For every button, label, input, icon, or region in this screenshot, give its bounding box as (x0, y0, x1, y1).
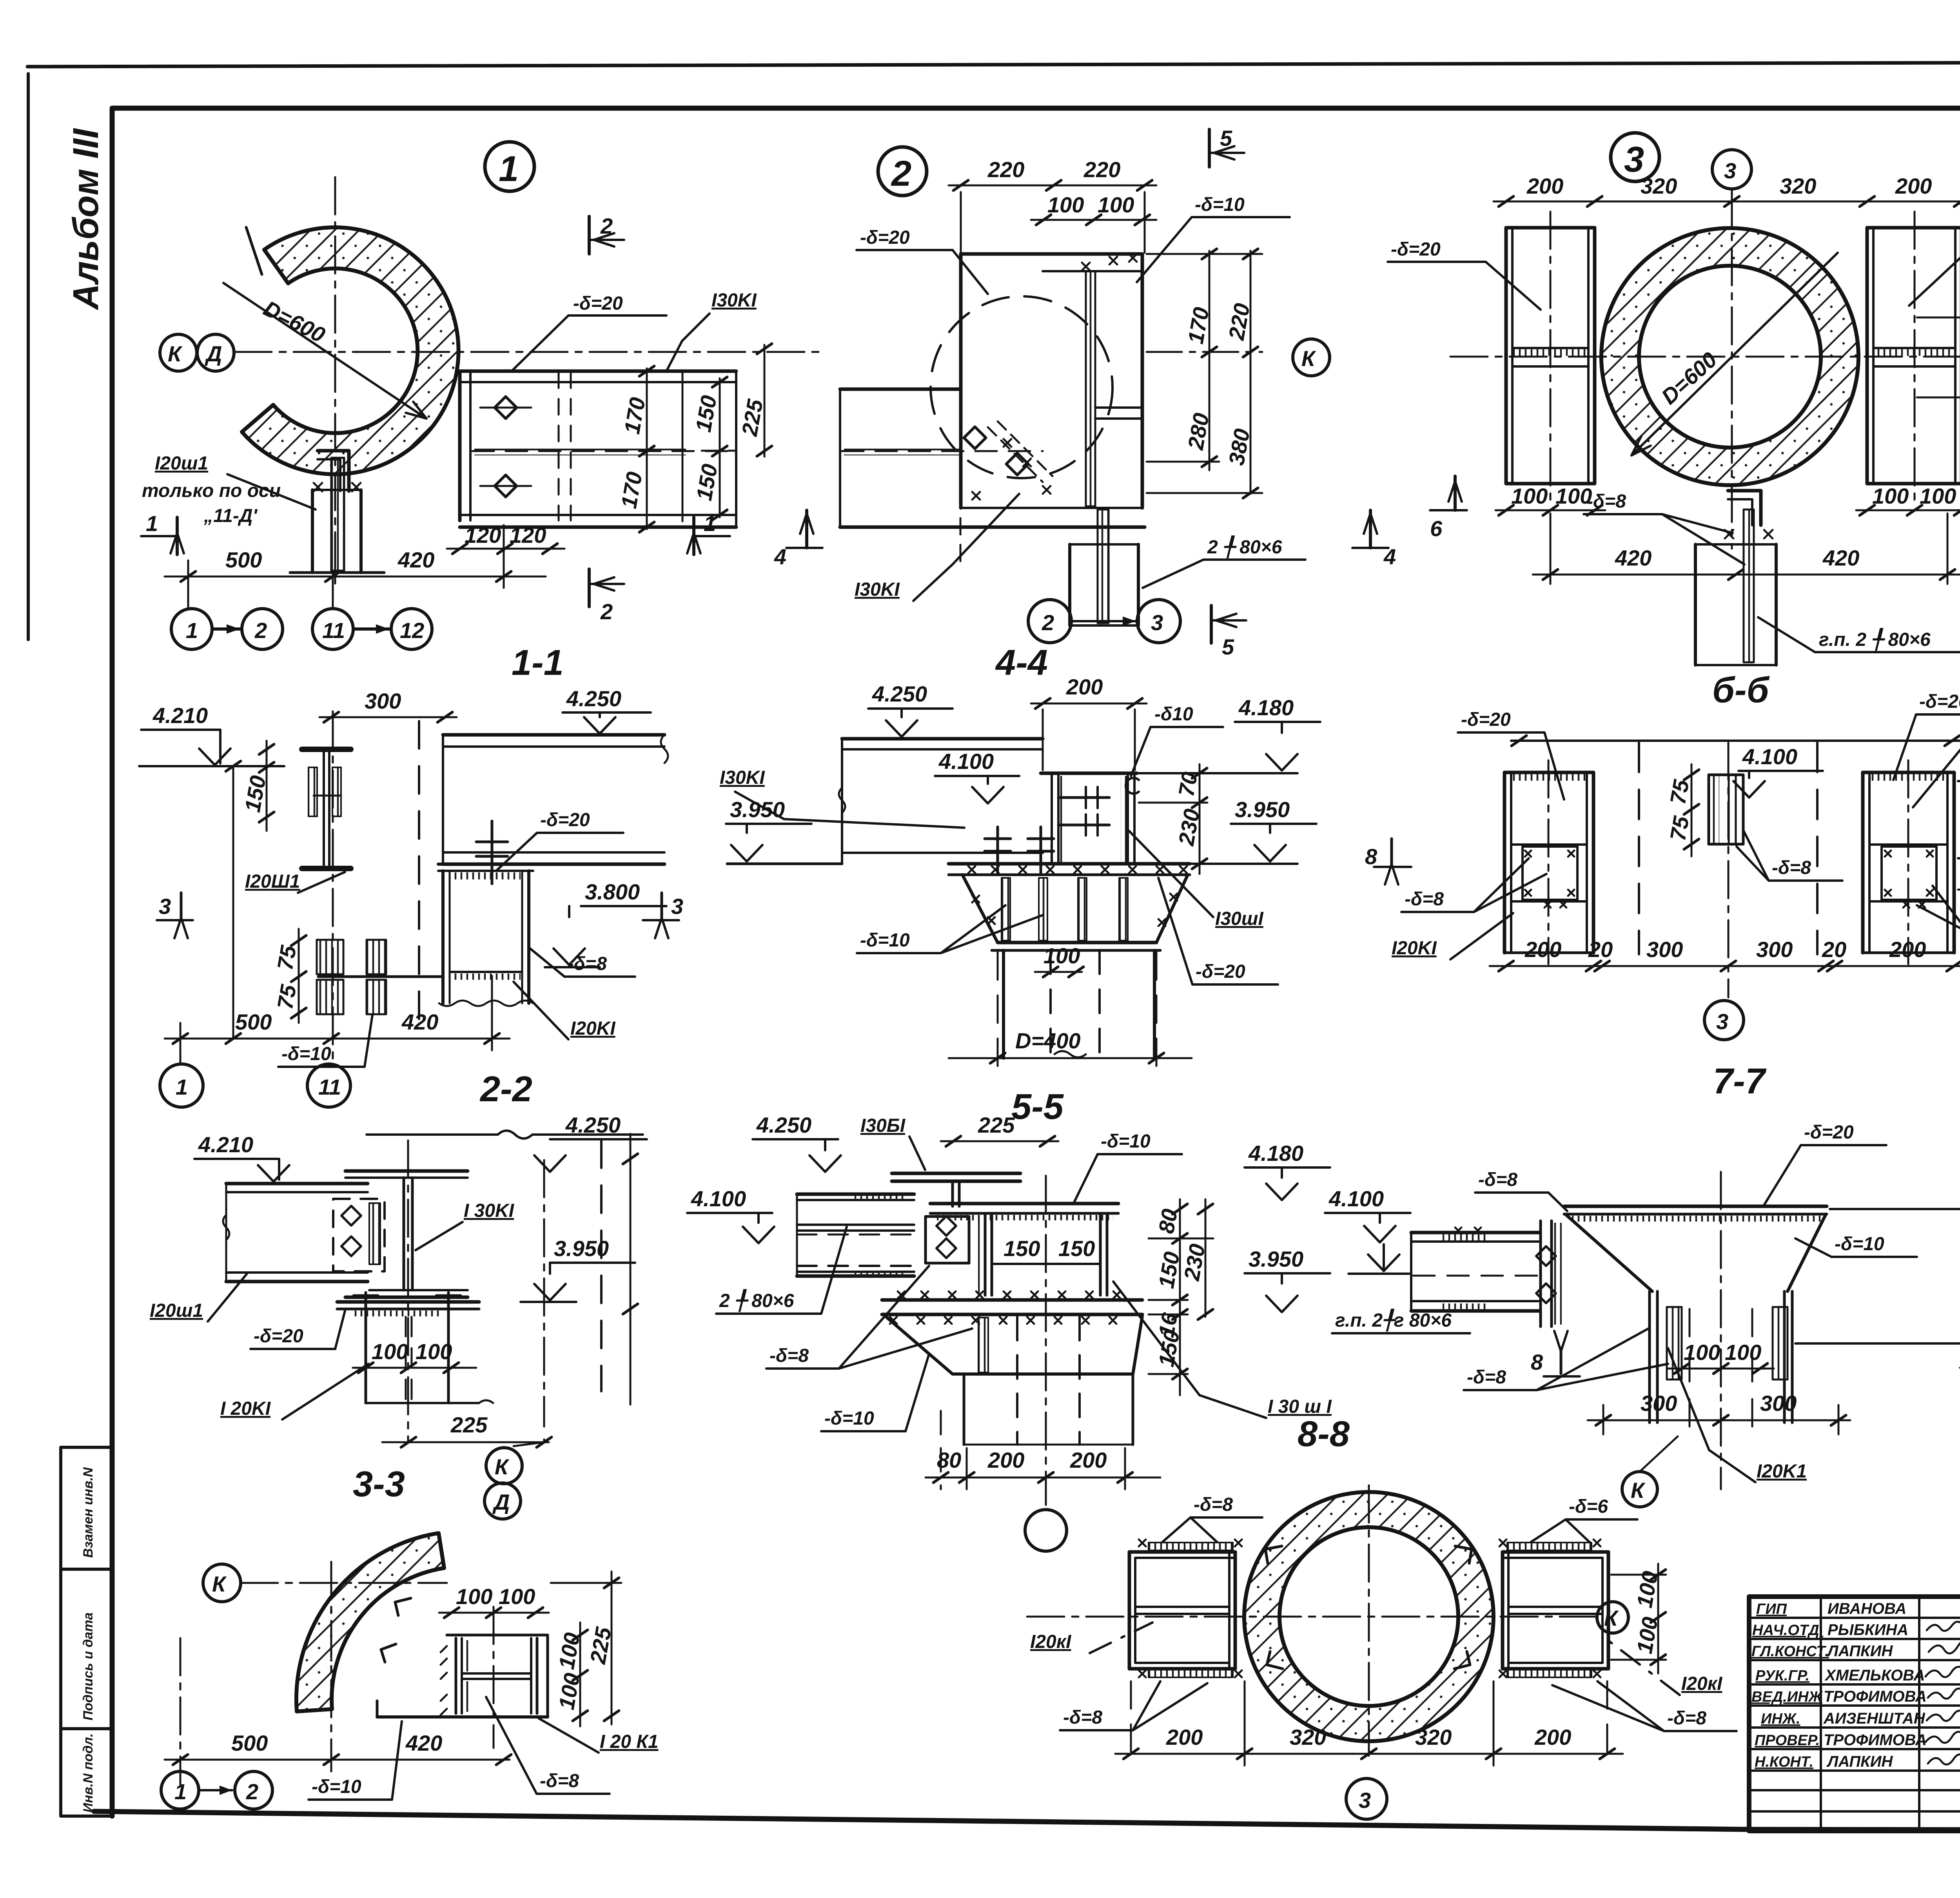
svg-text:-δ=20: -δ=20 (1919, 691, 1960, 712)
level 4.100 left (1368, 1254, 1399, 1271)
axis circle K (160, 334, 197, 371)
svg-text:-δ=8: -δ=8 (1772, 857, 1811, 878)
grid circle 3 top (1712, 150, 1751, 189)
svg-text:I30KI: I30KI (720, 767, 765, 788)
svg-text:5: 5 (1222, 634, 1234, 659)
svg-text:-δ=10: -δ=10 (1101, 1131, 1151, 1152)
right vertical dims 275 100 100 275 (1917, 219, 1960, 492)
svg-text:3: 3 (1151, 610, 1163, 635)
svg-text:-δ=10: -δ=10 (312, 1777, 361, 1797)
section mark 4 right (1352, 547, 1388, 549)
bottom dim 200 320 320 200 (1115, 1753, 1623, 1755)
sidebar rotated labels (81, 1467, 96, 1813)
svg-text:4.250: 4.250 (756, 1113, 811, 1137)
svg-text:2 ╀ 80×6: 2 ╀ 80×6 (1207, 535, 1282, 558)
svg-text:ИНЖ.: ИНЖ. (1761, 1711, 1800, 1727)
VIEW1 (141, 142, 821, 649)
beam I30K1 (839, 739, 1043, 864)
section mark 2 bottom (588, 569, 591, 607)
svg-text:ГЛ.КОНСТ.: ГЛ.КОНСТ. (1751, 1643, 1829, 1660)
SEC66 (1392, 691, 1960, 1040)
axis circles K D (543, 1439, 545, 1442)
VIEW3 (1388, 129, 1960, 676)
base plate d=20 (337, 1302, 479, 1316)
section mark 6 left (1430, 509, 1467, 511)
svg-text:-δ=8: -δ=8 (769, 1345, 809, 1366)
top plate d=10 (930, 1204, 1118, 1220)
svg-text:2-2: 2-2 (479, 1069, 532, 1109)
svg-text:6: 6 (1430, 516, 1443, 541)
svg-text:100: 100 (1098, 192, 1134, 217)
svg-text:420: 420 (397, 547, 434, 572)
dim 100 100 (1031, 219, 1156, 221)
grid circles 1 2 11 12 (171, 609, 432, 649)
section mark 1 left (141, 535, 177, 537)
svg-text:-δ=8: -δ=8 (1587, 491, 1626, 512)
svg-text:120: 120 (510, 523, 546, 547)
svg-text:-δ=20: -δ=20 (540, 810, 590, 830)
svg-text:ХМЕЛЬКОВА: ХМЕЛЬКОВА (1824, 1667, 1925, 1684)
svg-text:-δ=8: -δ=8 (1063, 1707, 1102, 1728)
dims 70 230 right (1199, 764, 1201, 874)
grid circles 1 11 (160, 1064, 203, 1107)
svg-text:200: 200 (1895, 174, 1932, 198)
svg-text:2: 2 (1042, 610, 1054, 635)
svg-text:1: 1 (499, 149, 519, 189)
bottom dims 100 100 (1495, 509, 1605, 511)
svg-text:4.100: 4.100 (1328, 1186, 1384, 1211)
svg-text:-δ=10: -δ=10 (1195, 194, 1245, 215)
left beam pair plan (1506, 212, 1595, 506)
svg-text:100: 100 (372, 1339, 408, 1364)
dim 100 (1035, 971, 1082, 973)
quarter concrete ring (296, 1533, 444, 1711)
svg-text:2: 2 (254, 618, 267, 643)
concrete ring column D=600 (1601, 228, 1858, 485)
svg-text:150: 150 (1058, 1236, 1095, 1261)
left boundary dim line (232, 766, 234, 1039)
svg-text:-δ=8: -δ=8 (1478, 1169, 1517, 1190)
svg-text:150: 150 (1004, 1236, 1040, 1261)
svg-text:8-8: 8-8 (1298, 1414, 1350, 1454)
dim line 500 420 (165, 576, 546, 578)
dim 500 420 (165, 1038, 510, 1040)
svg-text:-δ=6: -δ=6 (1569, 1496, 1608, 1517)
svg-text:АИЗЕНШТАН: АИЗЕНШТАН (1823, 1710, 1926, 1727)
grid circle 3 (1704, 1001, 1744, 1040)
svg-text:100: 100 (1725, 1340, 1761, 1365)
svg-text:К: К (495, 1454, 510, 1479)
svg-text:500: 500 (231, 1731, 268, 1755)
bottom dim 200 20 300 300 20 200 (1490, 965, 1960, 967)
svg-text:Альбом III: Альбом III (66, 128, 106, 310)
svg-text:100: 100 (456, 1584, 492, 1609)
gusset vertical plate assembly (961, 254, 1142, 508)
svg-text:3.950: 3.950 (554, 1236, 609, 1261)
svg-text:3: 3 (159, 894, 171, 919)
svg-text:300: 300 (1760, 1391, 1797, 1416)
svg-text:20: 20 (1822, 937, 1846, 962)
right beam box (1863, 760, 1954, 964)
outer left border line (27, 74, 30, 640)
svg-text:-δ=10: -δ=10 (860, 930, 910, 951)
end plate with bolts (1536, 1221, 1562, 1327)
node label circle 1 (485, 142, 534, 191)
svg-text:7-7: 7-7 (1713, 1061, 1767, 1101)
wide plate under beam (949, 864, 1190, 875)
section mark 2 top (588, 216, 591, 254)
svg-text:2: 2 (246, 1779, 258, 1804)
hidden column face dashed (418, 721, 420, 1035)
svg-text:-δ=8: -δ=8 (1667, 1708, 1706, 1729)
svg-text:4.210: 4.210 (198, 1132, 253, 1157)
svg-text:200: 200 (1534, 1725, 1571, 1749)
svg-text:4: 4 (774, 544, 786, 569)
svg-text:г.п. 2 ╀ 80×6: г.п. 2 ╀ 80×6 (1819, 628, 1931, 651)
svg-text:Д: Д (205, 341, 222, 366)
grid circles 1 2 (161, 1771, 199, 1809)
svg-text:300: 300 (1646, 937, 1683, 962)
embedded angle marks (1265, 1546, 1472, 1669)
svg-text:только по оси: только по оси (142, 480, 281, 501)
svg-text:70: 70 (1174, 770, 1202, 798)
svg-text:г.п. 2╀г 80×6: г.п. 2╀г 80×6 (1335, 1309, 1452, 1332)
svg-text:ТРОФИМОВА: ТРОФИМОВА (1824, 1688, 1927, 1705)
grid circle 3 (1346, 1778, 1387, 1819)
section mark 1 right (694, 535, 730, 537)
svg-text:Н.КОНТ.: Н.КОНТ. (1755, 1754, 1813, 1770)
svg-text:4.250: 4.250 (566, 686, 621, 711)
left beam box (1504, 760, 1593, 964)
svg-text:-δ=8: -δ=8 (540, 1771, 579, 1791)
svg-text:-δ=10: -δ=10 (1835, 1234, 1884, 1254)
dim 100 100 (1668, 1368, 1774, 1370)
svg-text:5: 5 (1220, 126, 1232, 150)
SEC77 (1348, 1122, 1960, 1507)
svg-text:I 20 К1: I 20 К1 (600, 1731, 659, 1752)
left beam pair (1129, 1539, 1242, 1677)
dim 100 100 above (439, 1612, 549, 1614)
svg-text:200: 200 (1526, 174, 1563, 198)
svg-text:220: 220 (1083, 157, 1120, 182)
svg-text:200: 200 (1066, 674, 1103, 699)
svg-text:320: 320 (1290, 1725, 1326, 1749)
svg-text:-δ=20: -δ=20 (254, 1326, 303, 1347)
signatures (1926, 1622, 1960, 1764)
SEC33 (150, 1113, 647, 1519)
svg-text:-δ=8: -δ=8 (1467, 1367, 1506, 1388)
svg-text:-δ=8: -δ=8 (568, 954, 607, 974)
dims 75 75 (298, 929, 300, 1023)
svg-text:120: 120 (465, 523, 501, 547)
svg-text:К: К (1631, 1478, 1646, 1503)
outer top border line (27, 62, 1960, 67)
dim 300 (319, 716, 457, 718)
svg-text:420: 420 (405, 1731, 442, 1755)
dims 75 75 middle (1691, 764, 1693, 856)
svg-text:3: 3 (1724, 158, 1736, 183)
svg-text:500: 500 (225, 547, 262, 572)
svg-text:I20кI: I20кI (1030, 1632, 1072, 1652)
axis circle Д (197, 334, 234, 371)
svg-text:11: 11 (318, 1075, 341, 1099)
svg-text:420: 420 (401, 1010, 438, 1034)
signature table names (1823, 1600, 1927, 1770)
svg-text:2: 2 (600, 214, 613, 238)
svg-text:I 30KI: I 30KI (464, 1200, 515, 1221)
svg-text:1: 1 (704, 511, 716, 536)
svg-text:I20KI: I20KI (570, 1018, 616, 1039)
svg-text:К: К (1604, 1606, 1619, 1630)
bottom plate with welds (882, 1291, 1142, 1324)
TITLEBLOCK (1749, 1447, 1960, 1831)
D=600 diagonal with arrow (223, 283, 426, 419)
svg-text:100: 100 (1511, 484, 1548, 508)
svg-text:225: 225 (450, 1412, 488, 1437)
right dims 100 100 225 (579, 1622, 581, 1726)
top dim 200 320 320 200 (1494, 201, 1960, 203)
svg-text:500: 500 (235, 1010, 272, 1034)
svg-text:3: 3 (1359, 1788, 1371, 1813)
axis circle K (203, 1564, 241, 1602)
svg-text:„11-Д': „11-Д' (203, 506, 258, 526)
T beam I30B1 (892, 1173, 1020, 1206)
support base (377, 1635, 548, 1717)
svg-text:I30БI: I30БI (860, 1115, 906, 1136)
column head I30sh1 (1041, 773, 1139, 864)
svg-text:100: 100 (1920, 484, 1956, 508)
section mark 5 bottom (1210, 605, 1213, 643)
dim 150 left (266, 741, 268, 831)
BOTL (161, 1533, 659, 1809)
svg-text:I 20KI: I 20KI (220, 1398, 271, 1419)
column box (978, 1213, 1107, 1295)
svg-text:1: 1 (176, 1075, 188, 1099)
svg-text:-δ=20: -δ=20 (1196, 961, 1245, 982)
dim 120 120 below beam (447, 548, 564, 550)
svg-text:Д: Д (492, 1490, 510, 1514)
svg-text:-δ=10: -δ=10 (281, 1044, 331, 1064)
svg-text:-δ=10: -δ=10 (824, 1408, 874, 1429)
trapezoid gusset (962, 875, 1188, 950)
svg-text:320: 320 (1641, 174, 1677, 198)
node label circle 3 (1611, 133, 1659, 181)
svg-text:100: 100 (1047, 192, 1084, 217)
svg-text:-δ=20: -δ=20 (1461, 709, 1511, 730)
bolt diamonds (495, 397, 517, 497)
vertical centerline (334, 177, 336, 588)
svg-text:-δ10: -δ10 (1154, 704, 1193, 725)
left beam elevation (1411, 1227, 1539, 1311)
beam from left (elevation) (840, 389, 1145, 564)
node label circle 2 (878, 147, 927, 196)
top boundary line (1511, 740, 1960, 742)
svg-text:4.100: 4.100 (1742, 744, 1797, 769)
svg-text:I 30 ш I: I 30 ш I (1268, 1396, 1332, 1417)
svg-text:Подпись и дата: Подпись и дата (81, 1612, 96, 1720)
svg-text:НАЧ.ОТД.: НАЧ.ОТД. (1752, 1622, 1823, 1639)
grid axis 11 dash-dot (332, 711, 334, 1066)
vertical dims 150 150 225 right of beam (647, 345, 764, 529)
svg-text:1-1: 1-1 (512, 643, 564, 683)
column below ring (290, 451, 384, 573)
svg-text:ТРОФИМОВА: ТРОФИМОВА (1824, 1731, 1927, 1749)
svg-text:-δ=8: -δ=8 (1194, 1494, 1233, 1515)
BOTC (1027, 1485, 1737, 1819)
svg-text:I20KI: I20KI (1392, 938, 1437, 959)
middle dashed column faces (1638, 743, 1640, 954)
dim 300 300 (1588, 1419, 1850, 1421)
svg-text:75: 75 (272, 983, 301, 1011)
dim 200 top (1031, 703, 1147, 705)
right dim 100 100 (1657, 1564, 1659, 1673)
column below (1004, 950, 1154, 1058)
dim 420 420 (1533, 574, 1960, 576)
svg-text:РЫБКИНА: РЫБКИНА (1828, 1621, 1908, 1639)
left beam 2L80x6 elevation (797, 1194, 914, 1276)
bracket plate with bolts (926, 1216, 969, 1263)
svg-text:Инв.N подл.: Инв.N подл. (81, 1733, 96, 1813)
svg-text:3.800: 3.800 (585, 879, 640, 904)
axis circle K (1622, 1472, 1657, 1507)
D=600 diagonal (1632, 253, 1838, 455)
svg-text:-δ=20: -δ=20 (1804, 1122, 1854, 1143)
SEC22 (139, 686, 683, 1107)
dim 225 top (941, 1140, 1058, 1142)
svg-text:200: 200 (1070, 1448, 1107, 1472)
I20sh1 beam section (302, 749, 351, 868)
svg-text:75: 75 (1665, 814, 1694, 843)
column under beam (438, 864, 533, 1006)
svg-text:8: 8 (1365, 844, 1377, 869)
svg-text:75: 75 (272, 943, 301, 972)
svg-text:I30шI: I30шI (1215, 908, 1264, 929)
svg-text:420: 420 (1822, 546, 1859, 570)
svg-text:б-б: б-б (1712, 670, 1770, 710)
svg-text:100: 100 (1684, 1340, 1720, 1365)
svg-text:3.950: 3.950 (1249, 1247, 1303, 1271)
svg-text:100: 100 (499, 1584, 535, 1609)
svg-text:1: 1 (186, 618, 198, 643)
svg-text:I30KI: I30KI (855, 579, 900, 600)
svg-text:3: 3 (1716, 1009, 1728, 1034)
beam plan I30K1 (460, 371, 736, 527)
embedded angle marks (381, 1598, 411, 1662)
anchor bolts (354, 1293, 461, 1403)
dim 225 (382, 1441, 549, 1443)
main title block frame (1749, 1597, 1960, 1831)
concrete ring column (1244, 1492, 1494, 1741)
stiffener plates pair (317, 940, 443, 1014)
column below with anchor (1695, 491, 1776, 665)
svg-text:100: 100 (1872, 484, 1909, 508)
dim 100 100 (353, 1367, 476, 1369)
svg-text:D=400: D=400 (1015, 1028, 1081, 1053)
svg-text:3-3: 3-3 (353, 1464, 405, 1504)
svg-text:-δ=8: -δ=8 (1405, 889, 1444, 910)
column below (367, 1317, 493, 1403)
svg-text:2: 2 (891, 154, 911, 194)
top plate of column assembly (1564, 1206, 1827, 1222)
svg-text:4.210: 4.210 (152, 703, 208, 728)
svg-text:20: 20 (1588, 937, 1613, 962)
svg-text:3: 3 (671, 894, 683, 919)
svg-text:К: К (1301, 346, 1316, 371)
svg-text:320: 320 (1780, 174, 1816, 198)
VIEW2 (774, 126, 1396, 659)
svg-text:5-5: 5-5 (1011, 1087, 1064, 1127)
svg-text:1: 1 (146, 511, 158, 536)
svg-text:200: 200 (1524, 937, 1561, 962)
svg-text:4-4: 4-4 (995, 643, 1048, 683)
svg-text:75: 75 (1665, 778, 1694, 806)
centerlines (1450, 356, 1960, 358)
ring cut tick (246, 227, 262, 274)
svg-text:ЛАПКИН: ЛАПКИН (1826, 1753, 1893, 1770)
right beam pair plan (1867, 212, 1960, 506)
small plate middle (1709, 775, 1743, 844)
svg-text:I20K1: I20K1 (1757, 1461, 1807, 1482)
left sidebar stamp boxes (61, 1447, 113, 1816)
svg-text:225: 225 (978, 1113, 1015, 1137)
svg-text:80: 80 (1154, 1207, 1182, 1235)
svg-text:220: 220 (987, 157, 1024, 182)
svg-text:РУК.ГР.: РУК.ГР. (1755, 1668, 1809, 1684)
svg-text:-δ=20: -δ=20 (573, 293, 623, 314)
bolt cross at cap (491, 821, 494, 884)
hidden column circle (dashed) (931, 296, 1112, 478)
axis verticals (407, 1140, 409, 1442)
section mark 5 top (1208, 129, 1211, 167)
axis circle K (1597, 1602, 1628, 1633)
crosshair centerlines (1027, 1616, 1595, 1618)
svg-text:1: 1 (174, 1779, 187, 1804)
svg-text:ИВАНОВА: ИВАНОВА (1828, 1600, 1906, 1617)
signature table rows (1749, 1597, 1960, 1831)
svg-text:К: К (168, 341, 183, 366)
dim 220 220 (949, 185, 1156, 187)
svg-text:I30KI: I30KI (711, 290, 757, 311)
svg-text:-δ=20: -δ=20 (1391, 239, 1441, 260)
dashed end plate with bolts (333, 1199, 385, 1271)
trapezoid sides (1565, 1172, 1826, 1489)
svg-text:I20кI: I20кI (1681, 1673, 1723, 1694)
svg-text:К: К (212, 1572, 227, 1596)
horizontal centerline K axis (234, 351, 821, 353)
svg-text:Взамен инв.N: Взамен инв.N (81, 1467, 96, 1558)
concrete column ring (C-shaped, D=600) (242, 227, 459, 474)
right dims 170 280 / 220 380 (1147, 251, 1262, 494)
svg-text:4.250: 4.250 (872, 682, 927, 706)
svg-text:3.950: 3.950 (1235, 797, 1290, 822)
section mark 4 left (786, 547, 822, 549)
anchor bolts above plate (985, 827, 1054, 875)
weld x marks (972, 254, 1137, 500)
svg-text:4.100: 4.100 (691, 1186, 746, 1211)
svg-text:ЛАПКИН: ЛАПКИН (1826, 1642, 1893, 1660)
column I30K1 vertical (345, 1171, 468, 1297)
svg-text:ВЕД.ИНЖ: ВЕД.ИНЖ (1751, 1689, 1823, 1705)
right beam pair (1499, 1539, 1608, 1677)
beam I20sh1 from left (223, 1184, 368, 1282)
svg-text:-δ=20: -δ=20 (860, 227, 910, 248)
svg-text:200: 200 (987, 1448, 1024, 1472)
svg-text:I20ш1: I20ш1 (150, 1300, 203, 1321)
svg-text:100: 100 (416, 1339, 452, 1364)
bolt diamonds (964, 427, 1028, 475)
svg-text:100: 100 (1044, 943, 1080, 968)
SEC88 (687, 1113, 1470, 1551)
